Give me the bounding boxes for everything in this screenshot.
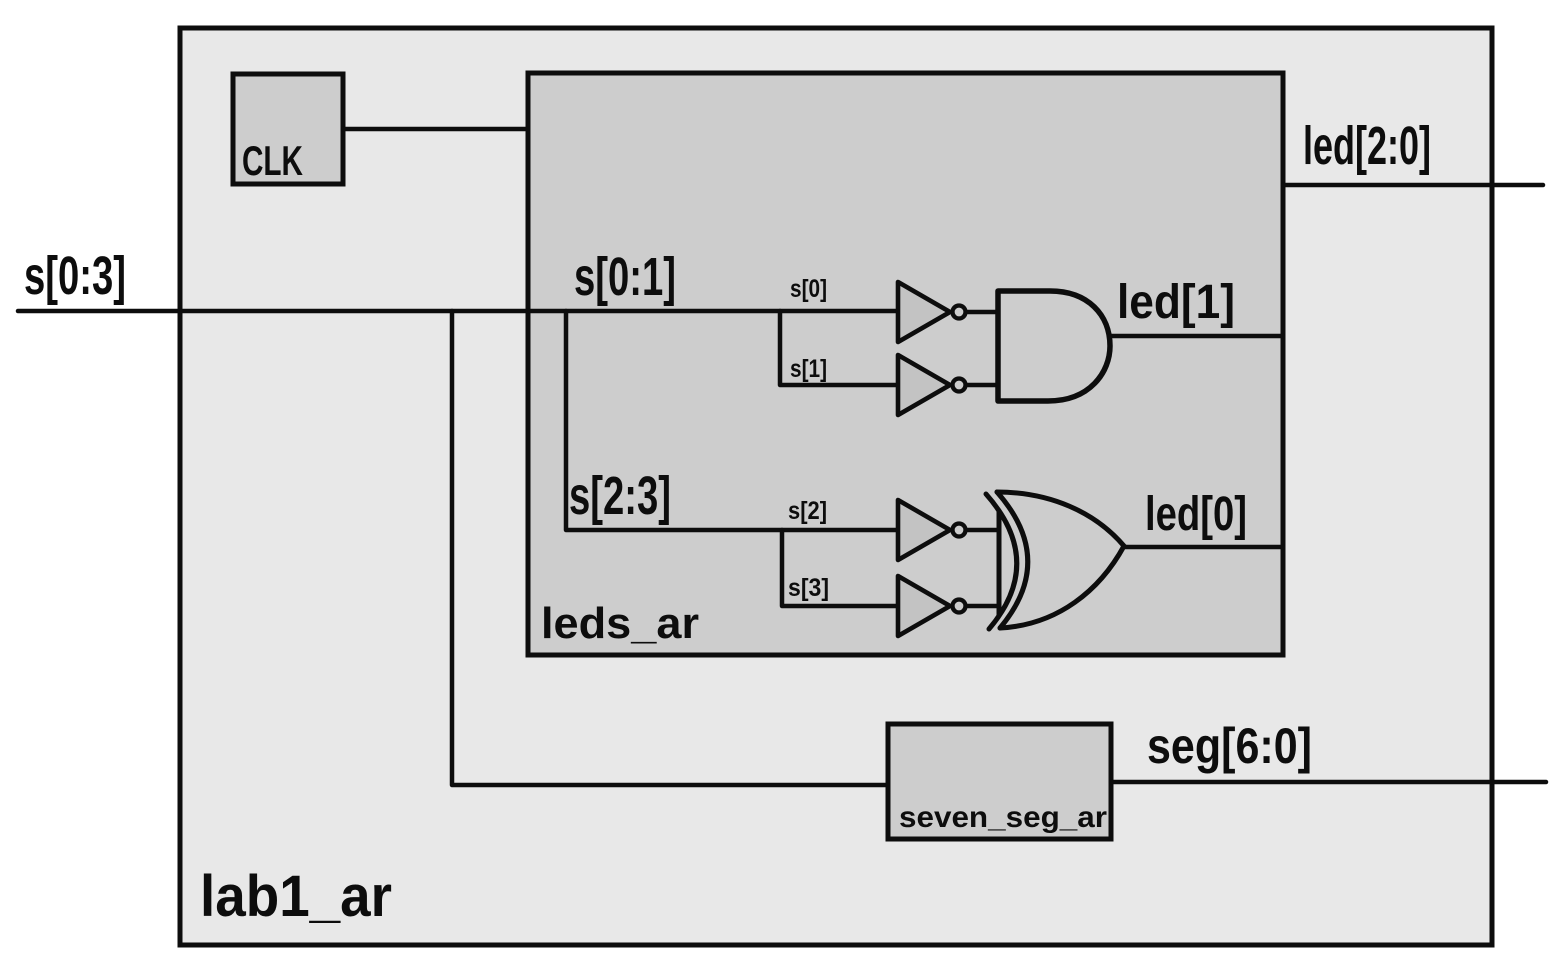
inverter U2 on s[1] [898,355,998,415]
wire branch down to s[2:3] [566,311,898,530]
wire led[2:0] output [1283,183,1543,188]
wire s[1] branch [780,311,898,385]
wire seg[6:0] output [1111,780,1546,785]
inverter U4 on s[3] [898,576,999,636]
svg-text:s[0:1]: s[0:1] [574,247,676,307]
outer module box lab1_ar [180,28,1492,945]
wire CLK to leds_ar [343,127,531,132]
svg-text:s[1]: s[1] [790,355,827,383]
wire s[0:3] input bus [18,309,898,314]
XOR gate [986,492,1124,629]
svg-text:lab1_ar: lab1_ar [200,864,392,929]
inverter U3 on s[2] [898,500,999,560]
svg-text:seg[6:0]: seg[6:0] [1147,718,1312,774]
svg-text:led[0]: led[0] [1145,488,1247,541]
svg-text:led[2:0]: led[2:0] [1303,116,1431,176]
svg-text:led[1]: led[1] [1117,276,1235,329]
seven_seg_ar box [888,724,1111,839]
CLK input box [233,74,343,184]
wire s bus down to seven_seg_ar [452,311,888,785]
AND gate [998,291,1110,401]
wire led[1] [1110,334,1283,339]
wire led[0] [1124,545,1283,550]
svg-text:s[0:3]: s[0:3] [24,246,126,306]
svg-text:s[0]: s[0] [790,275,827,303]
inverter U1 on s[0] [898,282,998,342]
svg-text:CLK: CLK [242,137,303,184]
inner module box leds_ar [528,73,1283,655]
svg-text:s[2]: s[2] [788,497,827,525]
svg-text:leds_ar: leds_ar [541,599,699,648]
svg-text:s[3]: s[3] [788,574,829,602]
wire s[3] branch [782,530,898,606]
svg-text:s[2:3]: s[2:3] [569,466,671,526]
svg-text:seven_seg_ar: seven_seg_ar [899,801,1107,834]
